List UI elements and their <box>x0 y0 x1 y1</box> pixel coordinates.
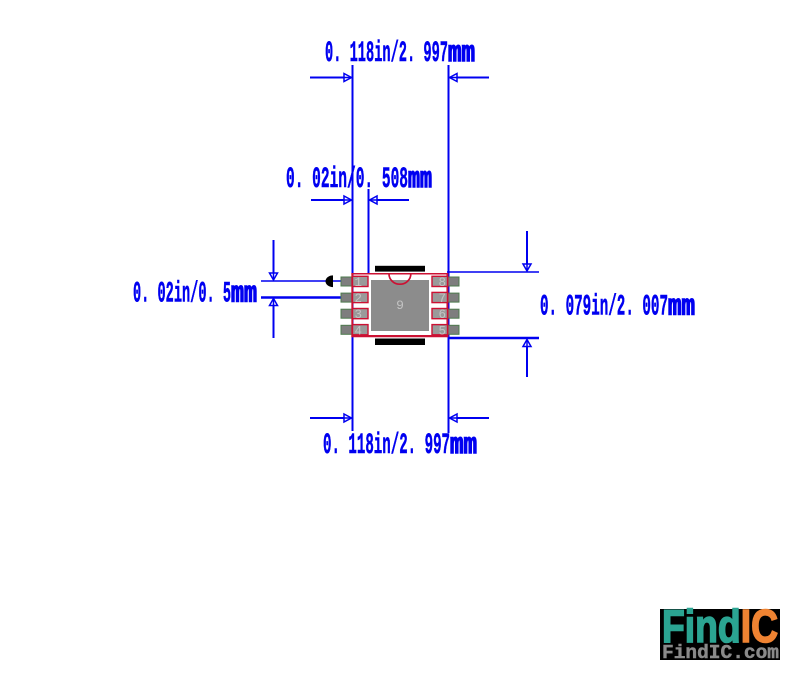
svg-text:0. 118in/2. 997: 0. 118in/2. 997 <box>323 429 450 463</box>
svg-text:mm: mm <box>231 278 257 312</box>
svg-text:mm: mm <box>668 291 695 325</box>
svg-text:mm: mm <box>450 429 477 463</box>
svg-text:4: 4 <box>355 324 363 338</box>
svg-text:FindIC.com: FindIC.com <box>662 642 779 664</box>
svg-text:8: 8 <box>438 276 446 290</box>
svg-text:mm: mm <box>408 163 432 197</box>
svg-text:3: 3 <box>355 308 363 322</box>
svg-text:0. 079in/2. 007: 0. 079in/2. 007 <box>540 291 668 325</box>
svg-text:5: 5 <box>438 324 446 338</box>
svg-text:2: 2 <box>355 292 363 306</box>
svg-text:1: 1 <box>355 276 363 290</box>
svg-text:0. 02in/0. 508: 0. 02in/0. 508 <box>286 163 408 197</box>
svg-text:mm: mm <box>448 37 475 71</box>
svg-text:6: 6 <box>438 308 446 322</box>
svg-text:0. 02in/0. 5: 0. 02in/0. 5 <box>133 278 231 312</box>
svg-text:9: 9 <box>396 298 404 313</box>
svg-text:7: 7 <box>438 292 446 306</box>
svg-text:0. 118in/2. 997: 0. 118in/2. 997 <box>325 37 448 71</box>
